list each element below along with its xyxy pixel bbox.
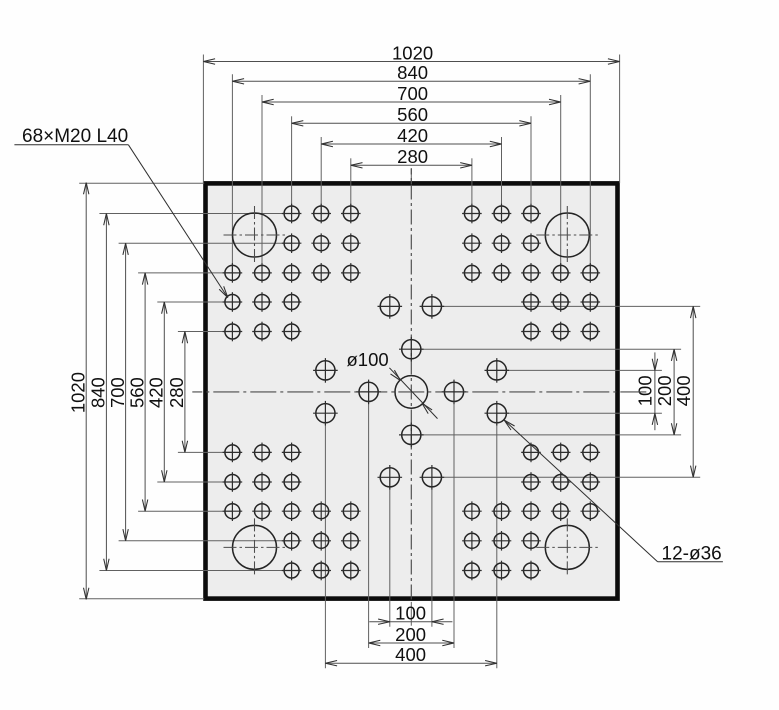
col -280 extension (560 top)	[291, 116, 293, 213]
tapped hole M20 (+280,-140)	[521, 322, 541, 342]
svg-text:68×M20 L40: 68×M20 L40	[22, 126, 128, 147]
through hole o36 (+200,+50)	[485, 401, 510, 426]
tapped hole M20 (+280,-420)	[521, 204, 541, 224]
row -100 extension (200 right)	[411, 348, 681, 350]
col +350 extension (700 top)	[560, 95, 562, 273]
dimension 400 bottom	[325, 661, 496, 666]
tapped hole M20 (-280,+280)	[282, 501, 302, 521]
tapped hole M20 (-280,-140)	[282, 322, 302, 342]
tapped hole M20 (+350,+280)	[551, 501, 571, 521]
dimension 700 top	[262, 99, 561, 104]
col +280 extension (560 top)	[530, 116, 532, 213]
tapped hole M20 (-420,+280)	[223, 501, 243, 521]
svg-text:560: 560	[397, 104, 428, 125]
svg-text:420: 420	[397, 125, 428, 146]
dimension 280 left	[182, 332, 187, 453]
tapped hole M20 (+140,+280)	[462, 501, 482, 521]
dimension 200 bottom	[369, 640, 454, 645]
tapped hole M20 (-280,+350)	[282, 531, 302, 551]
tapped hole M20 (-280,-350)	[282, 233, 302, 253]
tapped hole M20 (+280,-210)	[521, 292, 541, 312]
svg-text:200: 200	[395, 624, 426, 645]
row -200 extension (400 right)	[432, 305, 700, 307]
tapped hole M20 (+280,+140)	[521, 443, 541, 463]
col +420 extension (840 top)	[589, 74, 591, 273]
through hole o36 (-200,-50)	[313, 358, 338, 383]
svg-text:100: 100	[395, 603, 426, 624]
through hole o36 (+50,+200)	[420, 465, 445, 490]
dimension 420 top	[321, 141, 501, 146]
tapped hole M20 (-280,-420)	[282, 204, 302, 224]
svg-text:700: 700	[107, 377, 128, 408]
plate left edge extension (1020 top)	[202, 55, 204, 184]
svg-text:ø100: ø100	[347, 349, 389, 370]
tapped hole M20 (+140,-420)	[462, 204, 482, 224]
label 68xM20 L40 underline and leader	[14, 145, 227, 298]
col -50 extension (100 bottom)	[389, 477, 391, 626]
tie-bar hole TL	[224, 206, 286, 264]
tapped hole M20 (-210,-420)	[311, 204, 331, 224]
tapped hole M20 (+420,+210)	[581, 472, 601, 492]
tapped hole M20 (-210,+280)	[311, 501, 331, 521]
center hole o100	[395, 376, 428, 409]
through hole o36 (0,+100)	[399, 423, 424, 448]
row +210 extension (420 left)	[157, 481, 232, 483]
col -350 extension (700 top)	[261, 95, 263, 273]
col -100 extension (200 bottom)	[368, 392, 370, 648]
tapped hole M20 (+420,-140)	[581, 322, 601, 342]
svg-text:420: 420	[146, 377, 167, 408]
tapped hole M20 (+420,-210)	[581, 292, 601, 312]
tapped hole M20 (-350,-280)	[252, 263, 272, 283]
svg-text:280: 280	[166, 377, 187, 408]
dimension 100 bottom	[369, 619, 452, 624]
tapped hole M20 (-140,-420)	[341, 204, 361, 224]
tapped hole M20 (+210,-280)	[492, 263, 512, 283]
label o100 leader	[389, 368, 437, 419]
tapped hole M20 (-280,+140)	[282, 443, 302, 463]
tapped hole M20 (-420,+140)	[223, 443, 243, 463]
dimension 560 left	[142, 273, 147, 511]
tie-bar hole BL	[224, 518, 286, 576]
tapped hole M20 (+140,+350)	[462, 531, 482, 551]
tapped hole M20 (-210,+420)	[311, 561, 331, 581]
tapped hole M20 (+210,+280)	[492, 501, 512, 521]
horizontal centerline	[192, 391, 648, 393]
svg-text:560: 560	[126, 377, 147, 408]
svg-text:280: 280	[397, 146, 428, 167]
dimension 400 right	[691, 306, 696, 477]
tapped hole M20 (-420,+210)	[223, 472, 243, 492]
svg-text:400: 400	[395, 644, 426, 665]
tapped hole M20 (-210,-280)	[311, 263, 331, 283]
tapped hole M20 (+280,-350)	[521, 233, 541, 253]
tapped hole M20 (+420,+140)	[581, 443, 601, 463]
row -280 extension (560 left)	[138, 272, 232, 274]
tapped hole M20 (+280,+210)	[521, 472, 541, 492]
tapped hole M20 (-280,+420)	[282, 561, 302, 581]
dimension 420 left	[162, 302, 167, 482]
tapped hole M20 (+140,-280)	[462, 263, 482, 283]
dimension 700 left	[123, 243, 128, 541]
col +140 extension (280 top)	[471, 158, 473, 213]
svg-text:1020: 1020	[67, 372, 88, 413]
col -140 extension (280 top)	[350, 158, 352, 213]
dimension 1020 left	[84, 183, 89, 600]
tapped hole M20 (+350,+140)	[551, 443, 571, 463]
plate top edge extension (1020 left)	[79, 182, 204, 184]
dimension 200 right	[671, 349, 676, 435]
col +210 extension (420 top)	[501, 137, 503, 214]
row -420 extension (840 left)	[99, 213, 291, 215]
center column extension above plate	[410, 168, 412, 184]
tapped hole M20 (-140,+280)	[341, 501, 361, 521]
svg-text:840: 840	[88, 377, 109, 408]
tie-bar hole BR	[536, 518, 598, 576]
tapped hole M20 (-350,+210)	[252, 472, 272, 492]
svg-text:400: 400	[673, 375, 694, 406]
tapped hole M20 (+350,-210)	[551, 292, 571, 312]
platen plate body 1020x1020	[206, 183, 618, 598]
dimension 280 top	[351, 163, 472, 168]
tapped hole M20 (-280,-210)	[282, 292, 302, 312]
tapped hole M20 (+140,-350)	[462, 233, 482, 253]
tapped hole M20 (+420,-280)	[581, 263, 601, 283]
tapped hole M20 (+140,+420)	[462, 561, 482, 581]
plate right edge extension (1020 top)	[619, 55, 621, 184]
tapped hole M20 (-280,+210)	[282, 472, 302, 492]
tapped hole M20 (-140,-350)	[341, 233, 361, 253]
tapped hole M20 (+350,+210)	[551, 472, 571, 492]
tie-bar hole TR	[536, 206, 598, 264]
svg-text:700: 700	[397, 83, 428, 104]
col +200 extension (400 bottom)	[496, 413, 498, 668]
tapped hole M20 (+280,-280)	[521, 263, 541, 283]
through hole o36 (-50,-200)	[378, 294, 403, 319]
tapped hole M20 (+350,-140)	[551, 322, 571, 342]
row -350 extension (700 left)	[119, 242, 292, 244]
col -200 extension (400 bottom)	[324, 413, 326, 668]
col -420 extension (840 top)	[231, 74, 233, 273]
col +100 extension (200 bottom)	[453, 392, 455, 648]
row +100 extension (200 right)	[411, 434, 681, 436]
tapped hole M20 (+280,+420)	[521, 561, 541, 581]
tapped hole M20 (-420,-140)	[223, 322, 243, 342]
row +350 extension (700 left)	[119, 540, 292, 542]
through hole o36 (+50,-200)	[420, 294, 445, 319]
through hole o36 (-50,+200)	[378, 465, 403, 490]
vertical centerline	[410, 169, 412, 601]
tapped hole M20 (+210,-350)	[492, 233, 512, 253]
svg-text:200: 200	[654, 375, 675, 406]
tapped hole M20 (-140,+420)	[341, 561, 361, 581]
row -50 extension (100 right)	[497, 369, 662, 371]
svg-text:1020: 1020	[392, 42, 433, 63]
tapped hole M20 (+210,-420)	[492, 204, 512, 224]
tapped hole M20 (+280,+280)	[521, 501, 541, 521]
row +280 extension (560 left)	[138, 510, 232, 512]
tapped hole M20 (+280,+350)	[521, 531, 541, 551]
dimension 560 top	[292, 121, 531, 126]
tapped hole M20 (+420,+280)	[581, 501, 601, 521]
through hole o36 (-200,+50)	[313, 401, 338, 426]
tapped hole M20 (+350,-280)	[551, 263, 571, 283]
tapped hole M20 (-210,+350)	[311, 531, 331, 551]
label 12-o36 underline and leader	[504, 420, 723, 562]
row +50 extension (100 right)	[497, 412, 662, 414]
dimension 840 top	[232, 79, 590, 84]
row -210 extension (420 left)	[157, 301, 232, 303]
plate bottom edge extension (1020 left)	[79, 598, 204, 600]
tapped hole M20 (-350,+280)	[252, 501, 272, 521]
row -140 extension (280 left)	[178, 331, 233, 333]
tapped hole M20 (-420,-210)	[223, 292, 243, 312]
svg-text:840: 840	[397, 62, 428, 83]
tapped hole M20 (+210,+420)	[492, 561, 512, 581]
through hole o36 (-100,0)	[356, 380, 381, 405]
dimension 1020 top	[203, 59, 619, 64]
dimension 840 left	[104, 214, 109, 571]
row +140 extension (280 left)	[178, 451, 233, 453]
dimension 100 right	[652, 352, 657, 430]
through hole o36 (+200,-50)	[485, 358, 510, 383]
tapped hole M20 (-350,+140)	[252, 443, 272, 463]
through hole o36 (+100,0)	[442, 380, 467, 405]
center column extension below plate	[410, 602, 412, 626]
through hole o36 (0,-100)	[399, 337, 424, 362]
svg-text:100: 100	[635, 375, 656, 406]
tapped hole M20 (-210,-350)	[311, 233, 331, 253]
tapped hole M20 (+210,+350)	[492, 531, 512, 551]
tapped hole M20 (-280,-280)	[282, 263, 302, 283]
tapped hole M20 (-140,+350)	[341, 531, 361, 551]
col -210 extension (420 top)	[320, 137, 322, 214]
col +50 extension (100 bottom)	[431, 477, 433, 626]
row +200 extension (400 right)	[432, 476, 700, 478]
tapped hole M20 (-350,-140)	[252, 322, 272, 342]
tapped hole M20 (-420,-280)	[223, 263, 243, 283]
tapped hole M20 (-140,-280)	[341, 263, 361, 283]
row +420 extension (840 left)	[99, 570, 291, 572]
tapped hole M20 (-350,-210)	[252, 292, 272, 312]
